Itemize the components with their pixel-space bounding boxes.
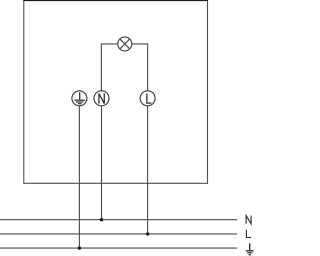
terminal L	[140, 91, 155, 106]
label N rail	[246, 216, 251, 224]
wire: PE terminal down to PE rail	[78, 106, 80, 248]
junction: PE wire to PE rail	[78, 246, 81, 249]
junction: L wire to L rail	[146, 232, 149, 235]
box top edge (darker)	[23, 0, 208, 2]
wire: lamp loop right (to L terminal)	[132, 44, 148, 91]
terminal PE	[72, 91, 87, 106]
supply rail N	[0, 219, 237, 221]
wire: L terminal down to L rail	[147, 106, 149, 234]
junction: N wire to N rail	[100, 218, 103, 221]
label L rail	[246, 230, 251, 238]
wire: N terminal down to N rail	[101, 106, 103, 220]
supply rail L	[0, 233, 237, 235]
wire: lamp loop left (to N terminal)	[101, 44, 117, 91]
device enclosure box	[24, 1, 208, 184]
terminal N	[94, 91, 109, 106]
lamp E1	[118, 37, 132, 51]
supply rail PE	[0, 247, 237, 249]
label earth symbol	[246, 243, 254, 255]
